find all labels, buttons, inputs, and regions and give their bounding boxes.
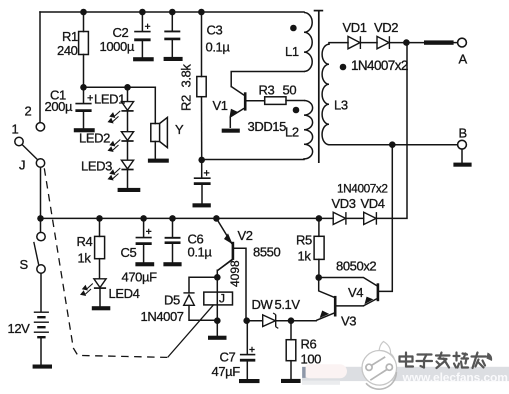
node rail switch (37, 215, 44, 222)
node R1 top (80, 9, 87, 16)
switch J contact 1 (15, 137, 23, 145)
ground C5 (135, 262, 154, 266)
wire top rail (40, 11, 304, 13)
diode VD1 (348, 36, 360, 49)
node R2 top (198, 9, 205, 16)
wire L3 bottom to terminal B (329, 144, 458, 146)
svg-text:1N4007x2: 1N4007x2 (337, 182, 388, 196)
node A (403, 39, 410, 46)
wire L3 top to VD1 (329, 42, 348, 44)
switch S lower contact (37, 265, 45, 273)
wire relay bottom to ground (216, 321, 218, 336)
svg-text:R6: R6 (301, 337, 317, 352)
svg-text:240: 240 (57, 43, 78, 58)
wire R6 leads (290, 321, 292, 340)
node V2 emitter (213, 215, 220, 222)
watermark logo circle (362, 351, 397, 386)
switch J pivot (36, 159, 44, 167)
wire V3 emitter to zener rail (276, 320, 316, 322)
wire LED chain segments (127, 87, 129, 101)
node R4 top (96, 215, 103, 222)
capacitor C1 (electrolytic) (75, 95, 93, 111)
svg-text:V1: V1 (213, 98, 228, 113)
phase dot L2 (293, 107, 300, 114)
svg-text:R4: R4 (77, 234, 93, 249)
wire rail to switch S (40, 218, 42, 232)
wire J pivot to 12V rail (40, 167, 42, 218)
svg-text:V3: V3 (341, 314, 356, 329)
node R1/C1 (80, 84, 87, 91)
svg-text:1N4007: 1N4007 (141, 309, 184, 324)
diode VD3 (333, 212, 346, 225)
wire R1 top lead (83, 12, 85, 32)
resistor R2 (197, 77, 206, 97)
zener diode DW 5.1V (263, 313, 279, 328)
svg-text:LED4: LED4 (109, 286, 140, 301)
wire C6 leads (172, 218, 174, 237)
wire relay node to D5 top (189, 277, 217, 292)
wire left drop to switch J contact 2 (39, 12, 41, 123)
svg-text:5.1V: 5.1V (275, 297, 301, 312)
resistor R5 (314, 236, 324, 259)
ground C6 (163, 262, 181, 266)
svg-text:C2: C2 (113, 25, 129, 40)
svg-text:50: 50 (283, 83, 297, 98)
node R5 bottom (315, 274, 322, 281)
svg-text:V4: V4 (348, 285, 363, 300)
wire R1 bottom lead (83, 55, 85, 88)
svg-text:VD1: VD1 (343, 20, 367, 35)
svg-text:R2: R2 (179, 95, 194, 111)
svg-text:3.8k: 3.8k (179, 64, 194, 88)
LED4 (81, 279, 106, 296)
transformer winding L1 (304, 13, 312, 72)
terminal B (458, 140, 467, 149)
node C2 top (139, 9, 146, 16)
relay J box (204, 292, 233, 305)
transformer winding L3 (322, 43, 329, 145)
ground C3 (164, 57, 183, 61)
svg-text:200µ: 200µ (45, 99, 73, 114)
resistor R6 (286, 340, 296, 361)
node R6 top (288, 317, 295, 324)
svg-text:LED1: LED1 (94, 92, 125, 107)
svg-text:470µF: 470µF (122, 270, 158, 285)
wire VD4 to riser up to node A (378, 43, 408, 219)
ground LED4 (92, 306, 111, 310)
ground speaker (148, 159, 169, 163)
svg-text:J: J (19, 158, 25, 173)
svg-text:B: B (459, 126, 467, 141)
LED1 (109, 102, 134, 123)
transformer winding L2 (304, 101, 313, 160)
svg-text:C3: C3 (207, 23, 223, 38)
wire node R1/C1 to speaker (84, 86, 156, 88)
ground V1 emitter (222, 129, 240, 133)
svg-text:C7: C7 (220, 350, 236, 365)
wire terminal B to ground (461, 149, 463, 162)
relay actuator solid diagonal (168, 305, 214, 357)
wire relay coil through box (216, 277, 218, 321)
wire bar to terminal A (454, 42, 458, 44)
wire L1 bottom to V1 collector corner (231, 72, 304, 87)
terminal A (458, 38, 467, 47)
svg-text:12V: 12V (8, 321, 31, 336)
wire C5 leads (143, 218, 145, 236)
svg-text:L3: L3 (334, 98, 348, 113)
wire S to battery (40, 273, 42, 311)
resistor R3 (265, 97, 286, 105)
wire DW anode to V2 base node (246, 320, 263, 322)
svg-text:R1: R1 (62, 29, 78, 44)
diode D5 (1N4007 across relay) (183, 293, 194, 305)
node relay bottom (214, 317, 221, 324)
ground C7 (239, 379, 260, 383)
switch S arm (34, 242, 39, 265)
svg-text:D5: D5 (164, 293, 180, 308)
transistor V1 (3DD15) (230, 87, 245, 129)
node R5 top (316, 215, 323, 222)
switch J arm (22, 145, 37, 160)
watermark swoosh (487, 353, 493, 362)
svg-text:R5: R5 (296, 233, 312, 248)
svg-text:C5: C5 (121, 245, 137, 260)
watermark logo leaf (379, 342, 395, 365)
wire 12V rail (41, 217, 334, 219)
svg-text:L1: L1 (285, 44, 299, 59)
diode VD2 (377, 36, 389, 49)
transistor V2 (8550) (216, 218, 234, 270)
phase dot L3 (340, 64, 347, 71)
wire V2 collector run (217, 260, 232, 278)
wire D5 bottom to relay bottom node (189, 306, 217, 321)
node LED1 top (124, 84, 131, 91)
watermark logo nodes (366, 357, 393, 380)
capacitor C2 (electrolytic) (134, 24, 150, 40)
capacitor C5 (electrolytic 470uF) (136, 229, 152, 244)
wire node R5 to V4 collector (319, 278, 377, 286)
watermark white smudge (303, 364, 347, 378)
wire LED4 to ground (99, 288, 101, 305)
svg-text:V2: V2 (238, 228, 253, 243)
switch S upper contact (37, 232, 45, 240)
LED2 (109, 132, 134, 152)
resistor R4 (95, 236, 105, 258)
wire C2 leads (141, 12, 143, 31)
svg-text:A: A (459, 52, 468, 67)
svg-text:100: 100 (301, 352, 322, 367)
svg-text:3DD15: 3DD15 (248, 119, 287, 134)
wire node B riser down to V4 base (379, 145, 392, 292)
svg-text:1k: 1k (298, 249, 312, 264)
svg-text:1N4007x2: 1N4007x2 (351, 58, 408, 73)
node DW/C7 (243, 317, 250, 324)
resistor R1 (79, 32, 89, 55)
node relay top (214, 274, 221, 281)
svg-text:VD3: VD3 (332, 196, 356, 211)
wire R4 leads (99, 218, 101, 236)
watermark text dianzifashaoyou (400, 353, 487, 369)
svg-text:1000µ: 1000µ (100, 39, 135, 54)
wire C1 leads (83, 87, 85, 103)
svg-text:L2: L2 (285, 125, 299, 140)
transistor V4 (8050) (363, 283, 378, 306)
mechanical link dashed from switch J (44, 168, 167, 357)
ground C1 (74, 128, 95, 132)
svg-text:VD4: VD4 (361, 196, 385, 211)
capacitor C4 (electrolytic 1u) (194, 170, 211, 184)
output thick bar to A (424, 40, 454, 44)
node C6 top (169, 215, 176, 222)
wire V2 base run (234, 248, 246, 320)
svg-text:Y: Y (175, 122, 184, 137)
speaker Y (151, 117, 168, 147)
ground R6 (281, 379, 301, 383)
wire VD1 to VD2 (360, 42, 377, 44)
battery 12V (34, 312, 49, 337)
svg-text:www.elecfans.com: www.elecfans.com (402, 371, 508, 385)
svg-text:8050x2: 8050x2 (336, 259, 376, 274)
wire R3 to L2 top (286, 100, 304, 102)
ground C4 (193, 203, 211, 207)
wire R2 leads (201, 12, 203, 77)
node C4/R2/L2 (198, 157, 205, 164)
svg-text:LED3: LED3 (81, 159, 112, 174)
phase dot L1 (290, 25, 297, 32)
wire C3 leads (171, 12, 173, 31)
svg-text:2: 2 (25, 104, 32, 119)
wire C4 leads (201, 160, 203, 177)
LED3 (109, 160, 134, 180)
svg-text:R3: R3 (259, 83, 275, 98)
wire V1 base to R3 (246, 100, 265, 102)
svg-text:J: J (219, 292, 225, 306)
svg-text:S: S (20, 257, 29, 272)
wire speaker leads (154, 87, 156, 123)
node C5 top (140, 215, 147, 222)
ground terminal B (453, 163, 471, 167)
node B wire (389, 141, 396, 148)
ground relay J (208, 336, 227, 340)
svg-text:47µF: 47µF (212, 364, 241, 379)
transformer core (314, 10, 324, 163)
wire V4 emitter to V3 base (336, 305, 363, 307)
wire battery to ground (40, 338, 42, 365)
switch J contact 2 (36, 123, 44, 131)
node C3 top (169, 9, 176, 16)
svg-text:1k: 1k (78, 251, 92, 266)
svg-text:4098: 4098 (228, 260, 242, 287)
diode VD4 (364, 212, 377, 225)
svg-text:1: 1 (12, 122, 19, 137)
svg-text:LED2: LED2 (79, 131, 110, 146)
wire C7 lead (246, 321, 248, 354)
ground LED3 (118, 188, 141, 192)
wire between VD3 and VD4 (347, 217, 364, 219)
svg-text:0.1µ: 0.1µ (188, 245, 213, 260)
wire R5 leads (318, 218, 320, 236)
svg-text:VD2: VD2 (374, 20, 398, 35)
wire C4 node to L2 bottom (202, 159, 304, 161)
watermark gray band (302, 367, 509, 381)
capacitor C6 (0.1u) (165, 238, 181, 243)
svg-text:DW: DW (252, 297, 274, 312)
wire node R5 to V3 collector (319, 278, 334, 298)
wire VD2 to output bar (389, 42, 424, 44)
capacitor C3 (0.1u) (164, 31, 180, 39)
svg-text:8550: 8550 (253, 245, 280, 260)
ground C2 (133, 57, 154, 61)
transistor V3 (8050) (316, 296, 335, 321)
svg-text:0.1µ: 0.1µ (206, 40, 231, 55)
ground battery (33, 365, 52, 369)
capacitor C7 (electrolytic 47uF) (240, 347, 255, 360)
